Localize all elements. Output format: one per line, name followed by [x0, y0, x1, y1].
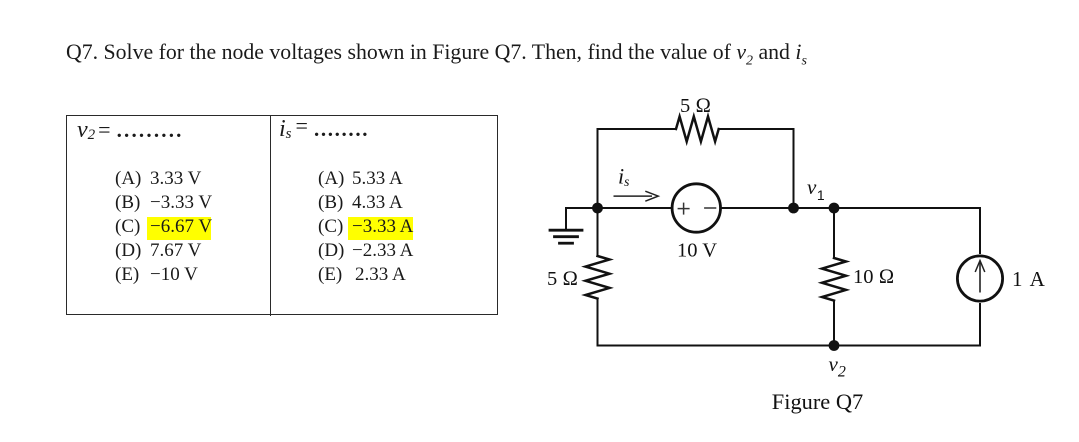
- svg-text:1 A: 1 A: [1012, 267, 1046, 291]
- svg-text:10 V: 10 V: [677, 240, 717, 262]
- svg-text:5 Ω: 5 Ω: [547, 268, 578, 290]
- svg-text:10 Ω: 10 Ω: [853, 266, 894, 288]
- svg-text:Figure Q7: Figure Q7: [772, 389, 863, 414]
- svg-text:v1: v1: [807, 175, 825, 203]
- svg-text:5 Ω: 5 Ω: [680, 95, 711, 117]
- svg-text:is: is: [618, 163, 629, 189]
- svg-text:v2: v2: [829, 352, 846, 381]
